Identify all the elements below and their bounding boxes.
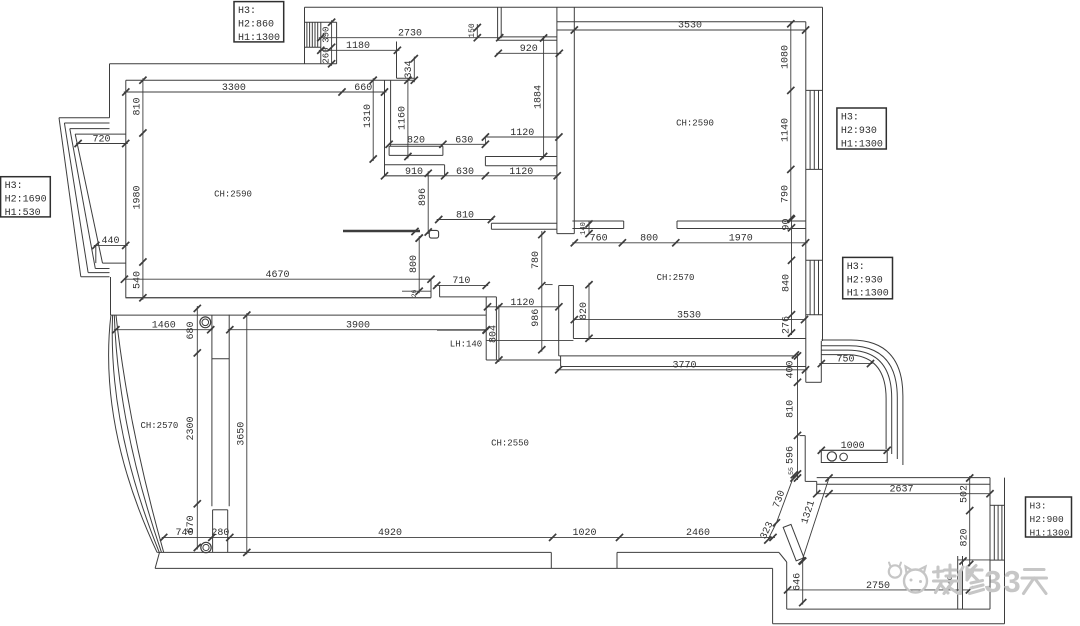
svg-text:810: 810 bbox=[133, 97, 144, 115]
svg-text:750: 750 bbox=[836, 354, 854, 365]
svg-text:1970: 1970 bbox=[729, 234, 753, 245]
svg-text:H1:1300: H1:1300 bbox=[841, 139, 883, 150]
svg-text:26: 26 bbox=[411, 290, 418, 298]
svg-text:H1:1300: H1:1300 bbox=[1030, 527, 1070, 538]
svg-text:646: 646 bbox=[793, 573, 804, 591]
svg-text:1080: 1080 bbox=[781, 45, 792, 69]
svg-text:H2:900: H2:900 bbox=[1030, 514, 1065, 525]
svg-text:H2:1690: H2:1690 bbox=[5, 195, 47, 206]
svg-text:760: 760 bbox=[590, 234, 608, 245]
svg-text:1180: 1180 bbox=[346, 41, 370, 52]
svg-text:H2:930: H2:930 bbox=[841, 126, 877, 137]
svg-text:680: 680 bbox=[186, 321, 197, 339]
svg-text:H2:930: H2:930 bbox=[847, 275, 883, 286]
svg-text:596: 596 bbox=[786, 446, 797, 464]
svg-text:800: 800 bbox=[409, 255, 420, 273]
svg-text:1020: 1020 bbox=[572, 528, 596, 539]
svg-text:502: 502 bbox=[960, 485, 971, 503]
svg-text:540: 540 bbox=[133, 271, 144, 289]
svg-text:H1:1300: H1:1300 bbox=[238, 33, 280, 44]
svg-text:2637: 2637 bbox=[889, 485, 913, 496]
svg-text:280: 280 bbox=[211, 528, 229, 539]
svg-text:720: 720 bbox=[92, 134, 110, 145]
svg-text:1140: 1140 bbox=[781, 118, 792, 142]
svg-text:810: 810 bbox=[786, 400, 797, 418]
svg-text:660: 660 bbox=[354, 83, 372, 94]
svg-text:CH:2550: CH:2550 bbox=[491, 439, 529, 449]
svg-text:1460: 1460 bbox=[152, 321, 176, 332]
svg-text:670: 670 bbox=[186, 515, 197, 533]
svg-text:2730: 2730 bbox=[398, 29, 422, 40]
svg-text:CH:2570: CH:2570 bbox=[140, 421, 178, 431]
svg-text:1120: 1120 bbox=[509, 167, 533, 178]
svg-text:LH:140: LH:140 bbox=[450, 340, 482, 350]
svg-text:H3:: H3: bbox=[841, 113, 859, 124]
svg-text:H3:: H3: bbox=[1030, 501, 1047, 512]
svg-text:800: 800 bbox=[640, 234, 658, 245]
svg-text:820: 820 bbox=[960, 528, 971, 546]
svg-text:2750: 2750 bbox=[866, 581, 890, 592]
svg-text:790: 790 bbox=[781, 185, 792, 203]
svg-text:H3:: H3: bbox=[847, 262, 865, 273]
svg-text:1160: 1160 bbox=[398, 106, 409, 130]
svg-text:3300: 3300 bbox=[222, 83, 246, 94]
svg-text:4670: 4670 bbox=[265, 270, 289, 281]
svg-text:820: 820 bbox=[407, 135, 425, 146]
svg-text:1000: 1000 bbox=[841, 441, 865, 452]
svg-text:334: 334 bbox=[404, 60, 415, 78]
svg-text:CH:2590: CH:2590 bbox=[214, 190, 252, 200]
svg-text:920: 920 bbox=[520, 44, 538, 55]
svg-text:3770: 3770 bbox=[672, 361, 696, 372]
svg-text:CH:2570: CH:2570 bbox=[657, 273, 695, 283]
svg-text:1980: 1980 bbox=[133, 185, 144, 209]
svg-text:810: 810 bbox=[456, 210, 474, 221]
svg-text:1120: 1120 bbox=[510, 298, 534, 309]
svg-text:780: 780 bbox=[531, 251, 542, 269]
svg-text:3650: 3650 bbox=[237, 422, 248, 446]
svg-text:H1:530: H1:530 bbox=[5, 208, 41, 219]
svg-text:260: 260 bbox=[321, 47, 331, 63]
svg-text:910: 910 bbox=[405, 167, 423, 178]
svg-text:3530: 3530 bbox=[678, 21, 702, 32]
svg-text:H2:860: H2:860 bbox=[238, 20, 274, 31]
svg-text:150: 150 bbox=[468, 23, 477, 38]
svg-text:986: 986 bbox=[531, 309, 542, 327]
svg-text:630: 630 bbox=[455, 135, 473, 146]
svg-text:1310: 1310 bbox=[363, 104, 374, 128]
svg-text:CH:2590: CH:2590 bbox=[676, 119, 714, 129]
svg-text:90: 90 bbox=[781, 218, 792, 230]
svg-text:440: 440 bbox=[101, 236, 119, 247]
svg-text:804: 804 bbox=[489, 325, 500, 343]
svg-text:1120: 1120 bbox=[510, 128, 534, 139]
svg-text:140: 140 bbox=[580, 222, 588, 235]
svg-text:3530: 3530 bbox=[677, 310, 701, 321]
svg-text:2460: 2460 bbox=[686, 528, 710, 539]
svg-text:276: 276 bbox=[781, 316, 792, 334]
svg-text:H3:: H3: bbox=[238, 6, 256, 17]
svg-text:840: 840 bbox=[781, 274, 792, 292]
svg-text:2300: 2300 bbox=[186, 416, 197, 440]
svg-text:630: 630 bbox=[456, 167, 474, 178]
svg-text:896: 896 bbox=[418, 188, 429, 206]
svg-text:820: 820 bbox=[579, 302, 590, 320]
svg-text:33: 33 bbox=[984, 564, 1022, 599]
svg-text:55: 55 bbox=[788, 467, 795, 475]
svg-text:400: 400 bbox=[786, 360, 797, 378]
svg-text:H1:1300: H1:1300 bbox=[847, 289, 889, 300]
svg-text:710: 710 bbox=[452, 276, 470, 287]
svg-text:H3:: H3: bbox=[5, 181, 23, 192]
svg-text:4920: 4920 bbox=[378, 528, 402, 539]
svg-text:3900: 3900 bbox=[346, 321, 370, 332]
svg-text:1884: 1884 bbox=[533, 85, 544, 109]
